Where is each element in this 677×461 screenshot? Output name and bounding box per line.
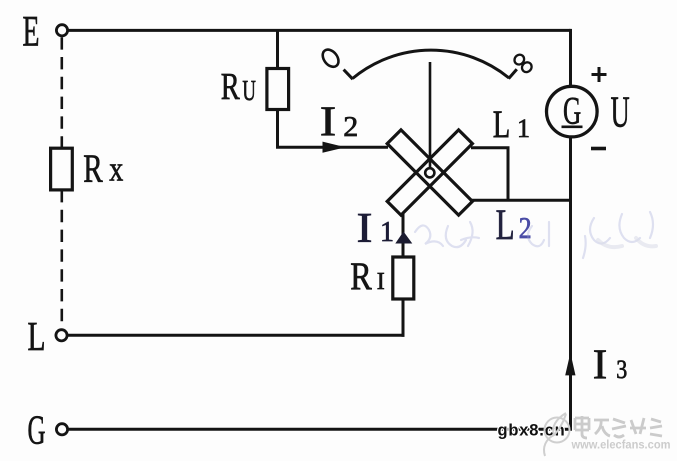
svg-text:R: R bbox=[83, 146, 103, 191]
svg-text:U: U bbox=[242, 75, 256, 107]
watermark blue script bbox=[415, 212, 653, 258]
wire right rail lower bbox=[569, 137, 572, 430]
svg-text:E: E bbox=[23, 8, 40, 55]
svg-text:U: U bbox=[611, 88, 630, 137]
terminal E bbox=[56, 25, 67, 36]
svg-text:1: 1 bbox=[517, 114, 530, 143]
pivot circle bbox=[425, 168, 434, 177]
wire bottom G rail bbox=[68, 428, 572, 431]
svg-text:L: L bbox=[493, 103, 511, 146]
wire right rail upper bbox=[569, 29, 572, 86]
scale zero mark bbox=[319, 47, 341, 70]
wire RI stem upper bbox=[402, 214, 405, 257]
meter needle bbox=[429, 62, 432, 168]
wire RU stem from top rail bbox=[276, 30, 279, 68]
current arrow I1 bbox=[395, 232, 412, 244]
svg-text:x: x bbox=[109, 149, 123, 188]
svg-text:G: G bbox=[28, 407, 46, 453]
scale end tick left bbox=[344, 70, 353, 80]
coil L2 crossed rectangle bbox=[387, 130, 472, 215]
resistor RU bbox=[267, 69, 289, 110]
terminal G bbox=[56, 424, 67, 435]
terminal L bbox=[56, 330, 67, 341]
wire L rail bbox=[68, 334, 405, 337]
current arrow I3 bbox=[565, 353, 575, 376]
svg-text:I: I bbox=[320, 100, 337, 146]
wire RI stem lower bbox=[402, 299, 405, 337]
minus sign bbox=[591, 147, 606, 151]
wire RU stem lower and I2 wire bbox=[276, 110, 388, 148]
watermark elecfans logo swirl bbox=[544, 413, 569, 456]
svg-text:L: L bbox=[496, 202, 515, 249]
wire top rail E to right bbox=[68, 29, 571, 32]
resistor RI bbox=[393, 257, 414, 299]
svg-text:I: I bbox=[357, 206, 373, 252]
wire coil L2 to right rail bbox=[470, 199, 571, 202]
svg-text:2: 2 bbox=[343, 112, 358, 143]
dashed test leads E to Rx to L bbox=[60, 37, 63, 329]
scale end tick right bbox=[509, 69, 517, 78]
svg-text:www.elecfans.com: www.elecfans.com bbox=[571, 438, 671, 452]
svg-text:R: R bbox=[350, 255, 372, 298]
wire coil L1 to node bbox=[471, 146, 508, 200]
svg-text:I: I bbox=[593, 343, 608, 389]
scale infinity mark bbox=[512, 53, 526, 67]
svg-text:1: 1 bbox=[380, 217, 394, 248]
meter scale arc bbox=[353, 50, 510, 78]
svg-text:3: 3 bbox=[616, 355, 627, 384]
svg-text:L: L bbox=[28, 313, 46, 359]
current arrow I2 bbox=[323, 142, 346, 153]
coil L1 crossed rectangle bbox=[387, 130, 472, 215]
resistor Rx bbox=[51, 148, 73, 190]
svg-text:R: R bbox=[221, 66, 240, 108]
watermark elecfans characters bbox=[575, 416, 662, 438]
svg-text:I: I bbox=[377, 269, 385, 295]
plus sign bbox=[592, 67, 607, 82]
generator G circle bbox=[547, 86, 598, 137]
